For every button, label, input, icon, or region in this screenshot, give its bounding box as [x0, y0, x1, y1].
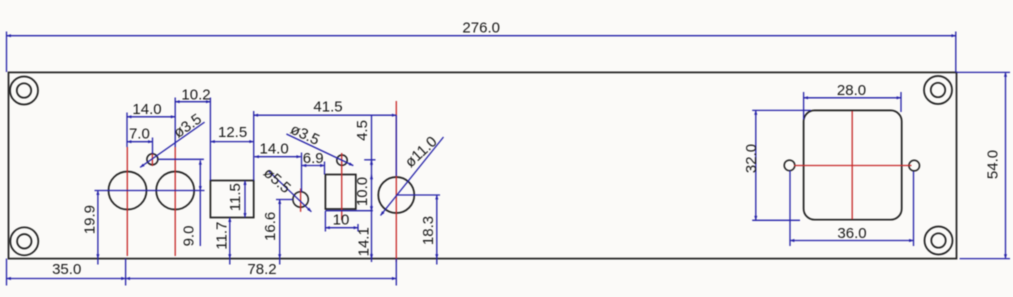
side pilot hole right [909, 160, 920, 171]
mounting hole top-right [924, 76, 952, 104]
dim 19.9 top extension [95, 190, 205, 192]
dim 18.3 below stub [436, 259, 438, 265]
dim 28.0 left extension [803, 92, 805, 120]
svg-text:14.0: 14.0 [132, 101, 161, 118]
center line hole d11 [395, 101, 397, 262]
hole d5.5 [293, 192, 308, 207]
dim 54.0 extension bottom [960, 258, 1010, 260]
dim 18.3 line [436, 195, 438, 259]
dim 35.0 right extension [125, 259, 127, 286]
mounting hole top-left [10, 77, 38, 105]
hole circle left [109, 172, 147, 210]
dim 276.0 extension right [955, 32, 957, 73]
hole d11 [378, 177, 414, 213]
dim 9.0 line [199, 160, 201, 190]
dim 14.0 second line [255, 156, 301, 158]
svg-text:10.2: 10.2 [181, 87, 210, 104]
dim 54.0 line [1005, 72, 1007, 258]
dim 54.0 extension top [957, 71, 1011, 73]
dim 276.0 extension left [6, 32, 8, 73]
center line circle left [126, 147, 128, 256]
hole circle right [156, 172, 194, 210]
dim 28.0 line [804, 97, 901, 99]
center line hole d5.5 [300, 189, 302, 212]
rectangle cutout 12.5x11.5 [210, 181, 253, 218]
svg-text:78.2: 78.2 [247, 261, 276, 278]
dim 11.7 below stub [229, 259, 231, 265]
dim 14.1 arrow bottom [371, 253, 373, 259]
svg-text:7.0: 7.0 [129, 126, 150, 143]
dim 9.0 line tail [199, 191, 201, 247]
svg-text:10.0: 10.0 [354, 177, 371, 206]
small hole d3.5 left [147, 154, 158, 165]
rounded square cutout right [804, 110, 902, 219]
dim 78.2 line [126, 278, 397, 280]
dim 11.7 line [229, 218, 231, 259]
dim 10 line [325, 227, 358, 229]
small hole d3.5 middle [337, 155, 347, 165]
svg-text:12.5: 12.5 [218, 124, 247, 141]
svg-text:19.9: 19.9 [81, 205, 98, 234]
dim 16.6 line [279, 200, 281, 259]
dim 16.6 below stub [279, 259, 281, 265]
leader d3.5 left [140, 122, 205, 167]
dim 4.5 10.0 14.1 shared line [371, 115, 373, 262]
dim 78.2 right extension [395, 259, 397, 286]
svg-text:14.1: 14.1 [356, 227, 373, 256]
leader d5.5 [269, 171, 312, 212]
dim 10.2 line [175, 101, 210, 103]
svg-text:28.0: 28.0 [837, 82, 866, 99]
dim 32.0 line [755, 110, 757, 220]
dim 10 left extension [324, 211, 326, 232]
svg-text:16.6: 16.6 [262, 212, 279, 241]
center line rounded square vertical [851, 111, 853, 219]
dim 41.5 line [254, 114, 397, 116]
dim 14.0 line [127, 116, 175, 118]
svg-text:ø5.5: ø5.5 [260, 164, 294, 197]
square cutout 10x10 [325, 175, 355, 210]
dim 10.2 right extension [209, 98, 211, 181]
dim 35.0 line [7, 278, 126, 280]
svg-text:41.5: 41.5 [313, 99, 342, 116]
dim 10.0 arrows [371, 175, 373, 180]
dim 276.0 line [7, 35, 956, 37]
dim 12.5 right extension [253, 111, 255, 181]
extension small hole middle [364, 159, 375, 161]
dim 19.9 below stub [97, 259, 99, 265]
center line rounded square horizontal [794, 165, 912, 167]
dim 4.5 arrow top [371, 160, 373, 166]
center line circle right [174, 147, 176, 256]
center line small hole left [151, 153, 153, 167]
svg-text:11.5: 11.5 [227, 183, 244, 211]
svg-text:54.0: 54.0 [984, 150, 1001, 179]
dim 6.9 line [302, 165, 325, 167]
panel outline [9, 72, 957, 258]
leader d3.5 middle [286, 134, 353, 166]
svg-text:18.3: 18.3 [420, 216, 437, 245]
dim 10 right extension [357, 224, 359, 232]
dim 7.0 line [127, 141, 153, 143]
leader d11.0 [381, 137, 444, 216]
dim 11.5 line [244, 181, 246, 218]
dim 28.0 right extension [900, 92, 902, 112]
dim 36.0 left extension [789, 171, 791, 247]
dim 32.0 bottom extension [752, 219, 800, 221]
dim 14.0 second right extension [301, 153, 303, 193]
svg-text:10: 10 [333, 212, 350, 229]
svg-text:276.0: 276.0 [462, 20, 500, 37]
extension square bottom [325, 210, 372, 212]
svg-text:36.0: 36.0 [837, 225, 866, 242]
mounting hole bottom-left [10, 227, 38, 255]
dim 12.5 line [210, 141, 253, 143]
extension d11 vertical [395, 115, 397, 176]
extension d11 horizontal [396, 194, 440, 196]
svg-text:14.0: 14.0 [259, 141, 288, 158]
dim 36.0 line [790, 240, 914, 242]
dim 14.0 left extension [126, 113, 128, 148]
svg-text:4.5: 4.5 [354, 120, 371, 141]
dim 35.0 left extension [6, 259, 8, 286]
svg-text:11.7: 11.7 [214, 222, 231, 250]
dim 19.9 line [97, 191, 99, 259]
mounting hole bottom-right [925, 227, 953, 255]
dim 7.0 right extension [152, 138, 154, 155]
side pilot hole left [784, 160, 795, 171]
dim 10.0 arrow bottom [371, 205, 373, 211]
dim 9.0 top extension [158, 158, 204, 160]
center line square cutout [341, 153, 343, 220]
dim 32.0 top extension [752, 109, 811, 111]
svg-text:32.0: 32.0 [743, 144, 760, 173]
svg-text:6.9: 6.9 [303, 150, 324, 167]
dim 16.6 top extension [276, 199, 293, 201]
svg-text:9.0: 9.0 [181, 226, 198, 247]
dim 14.0 right extension [174, 98, 176, 148]
svg-text:35.0: 35.0 [52, 261, 81, 278]
dim 6.9 right extension [324, 162, 326, 175]
dim 36.0 right extension [913, 171, 915, 246]
svg-text:ø3.5: ø3.5 [288, 121, 322, 149]
